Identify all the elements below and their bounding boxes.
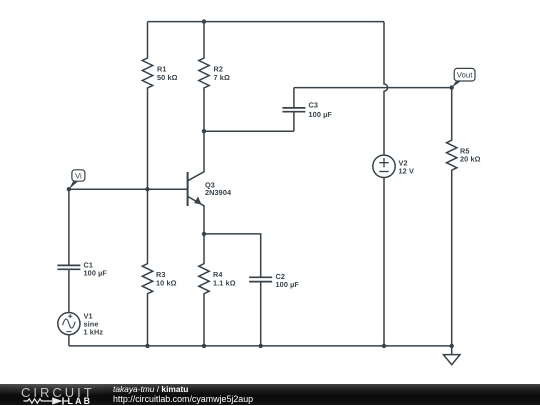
node Vi (67, 187, 71, 191)
svg-text:7 kΩ: 7 kΩ (214, 73, 230, 82)
svg-text:Vout: Vout (457, 71, 473, 80)
svg-text:1 kHz: 1 kHz (84, 327, 104, 336)
flag Vout (454, 68, 475, 81)
node bottom ground (450, 344, 454, 348)
source V1 (58, 313, 80, 346)
svg-text:10 kΩ: 10 kΩ (156, 278, 177, 287)
node bottom C2 (259, 344, 263, 348)
node Vout (450, 85, 454, 89)
node base junction (145, 187, 149, 191)
logo zigzag + diode wire (23, 397, 68, 404)
node emitter junction (202, 232, 206, 236)
svg-text:2N3904: 2N3904 (205, 188, 232, 197)
capacitor C1 (57, 189, 80, 312)
svg-text:50 kΩ: 50 kΩ (157, 73, 178, 82)
node collector junction (202, 129, 206, 133)
transistor Q3 (188, 131, 204, 234)
svg-text:100 µF: 100 µF (309, 110, 333, 119)
resistor R5 (447, 88, 457, 346)
source V2 (373, 155, 395, 177)
flag Vi (72, 170, 85, 181)
svg-text:100 µF: 100 µF (84, 269, 108, 278)
resistor R2 (199, 22, 209, 132)
footer title (113, 384, 188, 394)
wire V2 branch upper (384, 22, 388, 156)
footer bar (0, 384, 540, 405)
footer url (113, 394, 253, 404)
node bottom V2 (382, 344, 386, 348)
node top R2 junction (202, 19, 206, 23)
svg-text:100 µF: 100 µF (276, 280, 300, 289)
svg-text:Vi: Vi (75, 172, 82, 181)
svg-text:12 V: 12 V (399, 167, 414, 176)
resistor R4 (199, 234, 209, 346)
node bottom R4 (202, 344, 206, 348)
label tail Vi (69, 181, 79, 190)
resistor R1 (142, 22, 152, 190)
wire base rail (Vi to Q3 base) (69, 188, 187, 190)
wire collector rail (R2 bottom to C3) (204, 130, 294, 132)
wire top rail (148, 21, 385, 23)
wire Vout rail (294, 87, 452, 89)
wire bottom rail (69, 345, 452, 347)
resistor R3 (142, 189, 152, 346)
capacitor C3 (282, 88, 305, 132)
svg-text:C3: C3 (309, 101, 319, 110)
capacitor C2 (249, 277, 272, 346)
svg-text:20 kΩ: 20 kΩ (460, 155, 481, 164)
transistor Q3 emitter arrow (194, 197, 201, 205)
wire emitter rail (Q3 to C2) (204, 234, 261, 277)
logo diode triangle (52, 397, 62, 404)
svg-text:1.1 kΩ: 1.1 kΩ (213, 278, 236, 287)
node bottom R3 (145, 344, 149, 348)
ground (443, 346, 460, 365)
wire V2 branch lower (383, 178, 385, 346)
label tail Vout (452, 81, 462, 88)
